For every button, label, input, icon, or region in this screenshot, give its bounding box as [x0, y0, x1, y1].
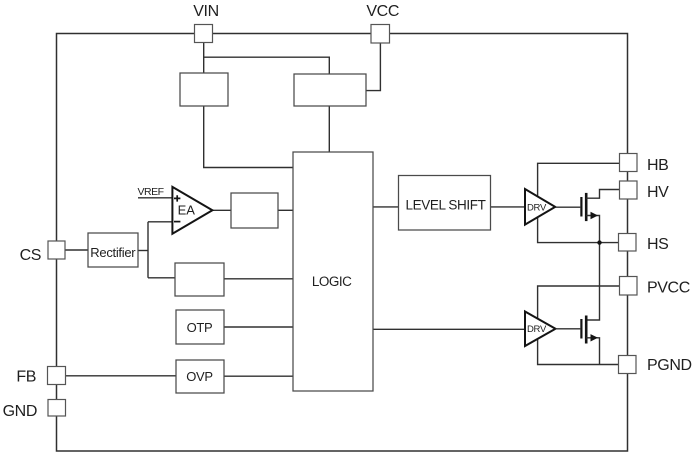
svg-text:PGND: PGND — [647, 357, 692, 374]
wire DRV2 bottom to PGND — [538, 339, 619, 365]
wire EA output to box4 — [212, 209, 231, 211]
op-amp EA — [172, 187, 212, 234]
junction HS node — [597, 240, 601, 244]
transistor Q1 (high side MOSFET) — [556, 190, 620, 243]
svg-text:VIN: VIN — [193, 3, 218, 20]
Q1 source — [586, 216, 599, 243]
wire FB to OVP — [66, 375, 177, 377]
svg-text:VREF: VREF — [138, 186, 164, 198]
wire VREF to EA — [138, 197, 172, 199]
Q2 source arrow — [591, 334, 599, 341]
block OTP — [176, 310, 224, 344]
pin PVCC — [620, 277, 638, 296]
wire HB to DRV1 top — [538, 163, 620, 197]
svg-text:CS: CS — [20, 247, 41, 264]
Q1 source arrow — [591, 212, 599, 219]
pin VCC — [371, 25, 390, 44]
pin PGND — [619, 356, 637, 374]
wire LEVEL SHIFT to DRV1 — [491, 206, 526, 208]
box3 (block below EA) — [175, 263, 224, 296]
svg-text:VCC: VCC — [366, 3, 399, 20]
wire Rectifier to node — [138, 250, 148, 252]
Q1 channel bar — [585, 193, 588, 221]
pin HB — [620, 154, 638, 172]
svg-text:EA: EA — [178, 203, 196, 218]
transistor Q2 (low side MOSFET) — [556, 316, 600, 365]
Q2 gate bar — [580, 319, 582, 339]
wire box4 to LOGIC — [278, 209, 293, 211]
block LEVEL SHIFT — [399, 176, 491, 231]
wire box2 to LOGIC top — [328, 106, 330, 152]
EA minus sign — [174, 221, 180, 223]
svg-text:LOGIC: LOGIC — [312, 274, 352, 289]
box1 (unlabeled block under VIN) — [180, 73, 228, 106]
block OVP — [176, 360, 224, 393]
svg-text:LEVEL SHIFT: LEVEL SHIFT — [406, 198, 486, 213]
wire VIN branch to box2 top — [204, 57, 330, 74]
block Rectifier — [88, 233, 138, 267]
wire box1 to LOGIC — [204, 106, 293, 168]
box2 (unlabeled block under VCC) — [294, 74, 366, 106]
wire OTP to LOGIC — [224, 326, 293, 328]
pin FB — [48, 367, 66, 385]
driver DRV2 — [525, 312, 556, 347]
block LOGIC — [293, 152, 373, 391]
wire VIN stem to box1 — [203, 43, 205, 73]
Q1 gate wire — [556, 206, 581, 208]
wire OVP to LOGIC — [224, 375, 293, 377]
svg-text:DRV: DRV — [527, 202, 547, 213]
svg-text:PVCC: PVCC — [647, 280, 690, 297]
wire LOGIC to DRV2 — [373, 328, 525, 330]
node vertical — [147, 222, 149, 278]
Q1 drain to HV — [586, 190, 619, 199]
svg-text:FB: FB — [16, 369, 36, 386]
svg-text:HS: HS — [647, 236, 668, 253]
svg-text:GND: GND — [3, 403, 37, 420]
pin HV — [620, 181, 638, 199]
driver DRV1 — [525, 189, 555, 225]
svg-text:DRV: DRV — [527, 324, 547, 335]
pin HS — [619, 234, 637, 252]
wire node to EA inverting input — [148, 221, 172, 223]
Q1 gate bar — [580, 197, 582, 217]
svg-text:OVP: OVP — [186, 369, 213, 384]
box4 (block after EA) — [231, 193, 278, 228]
svg-text:HB: HB — [647, 157, 668, 174]
wire LOGIC to LEVEL SHIFT — [373, 206, 399, 208]
wire PVCC to DRV2 top — [538, 286, 620, 319]
Q2 gate wire — [556, 328, 581, 330]
wire HS node to Q2 drain — [586, 243, 599, 320]
pin CS — [48, 241, 65, 259]
pin VIN — [195, 25, 213, 43]
svg-text:Rectifier: Rectifier — [90, 245, 136, 260]
EA plus sign — [174, 195, 180, 201]
wire VCC stem to box2 right — [366, 43, 380, 91]
svg-text:HV: HV — [647, 184, 669, 201]
Q2 channel bar — [585, 316, 588, 344]
wire CS to Rectifier — [65, 249, 88, 251]
Q2 source — [586, 338, 599, 365]
pin GND — [48, 400, 66, 417]
IC boundary — [57, 34, 628, 452]
wire node to box3 — [148, 277, 175, 279]
svg-text:OTP: OTP — [187, 320, 213, 335]
wire box3 to LOGIC — [224, 278, 293, 280]
wire DRV1 bottom to HS — [538, 218, 619, 243]
